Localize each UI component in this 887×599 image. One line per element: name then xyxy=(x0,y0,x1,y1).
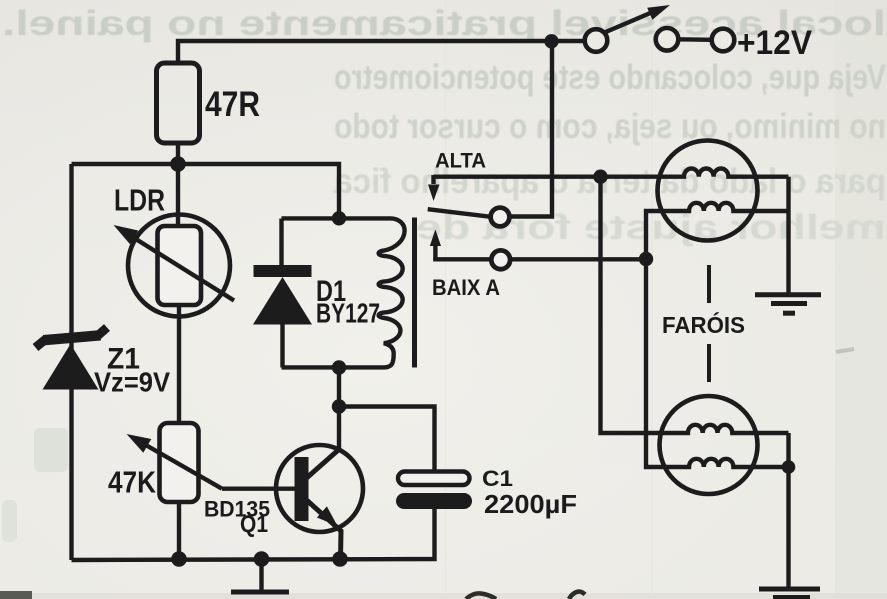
connector circle right xyxy=(712,29,735,52)
svg-text:2200µF: 2200µF xyxy=(484,489,577,519)
wire: left rail through Z1 xyxy=(69,164,73,560)
wire: Q1 collector diagonal xyxy=(306,449,340,479)
svg-text:FARÓIS: FARÓIS xyxy=(662,311,745,338)
relay K1 coil with loop top and bottom lines xyxy=(282,218,405,367)
capacitor C1 negative plate xyxy=(396,493,472,509)
transistor Q1 circle xyxy=(276,445,363,532)
transistor Q1 base bar xyxy=(295,457,309,521)
connector circle left xyxy=(656,28,679,51)
wire: top rail from R1 top to switch xyxy=(178,41,585,64)
ignition switch blade arrow head xyxy=(647,5,670,20)
wire: BAIXA arrow tail xyxy=(433,243,437,261)
junction dot rail-LDR branch xyxy=(171,551,187,567)
zener Z1 cathode bar xyxy=(44,335,101,340)
potentiometer arrow head xyxy=(127,434,152,453)
LDR arrow head xyxy=(114,225,139,244)
wire: ALTA branch down to bottom lamp high filament xyxy=(601,177,789,433)
LDR arrow shaft xyxy=(131,236,234,301)
capacitor C1 positive plate xyxy=(398,472,470,486)
wire: ground stub bottom left xyxy=(259,559,263,590)
wire: BAIXA branch down to bottom lamp low filament xyxy=(646,259,789,467)
LDR element rectangle xyxy=(158,226,202,305)
LDR body circle xyxy=(128,215,230,317)
svg-text:C1: C1 xyxy=(482,466,513,491)
svg-text:BY127: BY127 xyxy=(316,298,380,329)
svg-text:ALTA: ALTA xyxy=(435,150,486,173)
diode D1 triangle xyxy=(253,277,312,325)
svg-text:Veja que, colocando este poten: Veja que, colocando este potenciometro xyxy=(334,58,886,97)
svg-text:47K: 47K xyxy=(108,465,157,500)
svg-text:LDR: LDR xyxy=(114,183,165,218)
wire: relay bottom to collector node xyxy=(337,368,341,450)
junction dot BAIXA-lamp xyxy=(639,252,653,266)
svg-text:melhor ajuste fora de: melhor ajuste fora de xyxy=(416,208,886,247)
diode D1 cathode bar xyxy=(254,265,312,277)
wire: Q1 emitter diagonal and drop xyxy=(306,500,341,560)
ignition switch contact circle xyxy=(585,29,608,52)
junction dot rail-emitter xyxy=(332,551,348,567)
svg-text:Vz=9V: Vz=9V xyxy=(94,367,170,398)
potentiometer 47K body xyxy=(160,423,199,502)
junction dot rail-ground xyxy=(254,551,270,567)
junction dot relay bottom xyxy=(332,360,346,374)
zener Z1 triangle xyxy=(43,344,99,390)
BAIXA contact arrow head xyxy=(430,230,441,247)
svg-text:para o lado da terra o aparelh: para o lado da terra o aparelho fica xyxy=(334,162,886,201)
junction dot ALTA-lamp xyxy=(593,170,607,184)
wire: +12V feed down to relay pole xyxy=(510,41,553,217)
transistor Q1 emitter arrow head xyxy=(317,506,338,526)
headlight lamp 1 circle xyxy=(658,141,758,241)
ignition switch blade xyxy=(605,11,656,33)
junction dot under R1 xyxy=(170,156,186,172)
svg-text:BAIX A: BAIX A xyxy=(432,275,500,300)
relay pole contact circle xyxy=(491,208,510,227)
junction dot +12V rail xyxy=(544,34,558,48)
wire: Q1 base lead xyxy=(222,487,295,491)
junction dot collector node xyxy=(332,399,346,413)
wire: D1 branch verticals xyxy=(279,219,283,267)
wire: BAIXA branch up to top lamp low filament xyxy=(646,203,789,259)
junction dot lamp2 right xyxy=(782,460,796,474)
ground G3 bottom left xyxy=(231,590,289,595)
wire: R1 bottom to LDR top xyxy=(176,143,180,226)
label FAROIS pointer lower xyxy=(707,344,711,382)
headlight lamp 2 circle xyxy=(660,396,758,494)
wire: bottom rail to C1 negative lead xyxy=(72,509,435,560)
svg-text:Q1: Q1 xyxy=(240,511,268,538)
wire: ALTA line with top lamp high filament xyxy=(434,169,789,177)
wire: node row under R1 xyxy=(72,164,340,219)
svg-text:+12V: +12V xyxy=(737,24,812,62)
wire: right drop to ground G2 xyxy=(786,433,790,588)
wire: right drop to ground G1 xyxy=(786,177,790,293)
wire: BAIXA line xyxy=(433,257,646,261)
BAIXA contact circle xyxy=(491,250,510,269)
svg-text:47R: 47R xyxy=(205,85,260,124)
wire: collector node to C1 positive lead xyxy=(339,407,435,473)
wire: connector link xyxy=(678,37,712,42)
wire: LDR bottom to pot top xyxy=(177,305,181,423)
ground G1 top right xyxy=(755,295,821,313)
wire: pot bottom to rail xyxy=(177,502,181,559)
resistor R1 xyxy=(157,63,200,143)
ground G2 bottom right xyxy=(759,589,820,598)
smudge: handwritten squiggle bottom center xyxy=(466,592,585,599)
smudge: faint glyph left xyxy=(34,428,68,472)
ALTA contact arrow head xyxy=(428,185,440,202)
smudge: faint dash right xyxy=(836,349,854,352)
wire: relay armature to pole contact xyxy=(428,209,491,217)
smudge: bottom-left corner dark bar xyxy=(0,591,32,599)
junction dot relay top xyxy=(332,211,346,225)
svg-text:no minimo, ou seja, com o curs: no minimo, ou seja, com o cursor todo xyxy=(334,107,886,146)
relay K1 core bar xyxy=(412,218,417,368)
potentiometer arrow shaft xyxy=(144,444,222,489)
scanner streak lines xyxy=(446,0,653,599)
label FAROIS pointer upper xyxy=(707,265,711,303)
wire: ALTA arrow tail xyxy=(431,175,435,184)
